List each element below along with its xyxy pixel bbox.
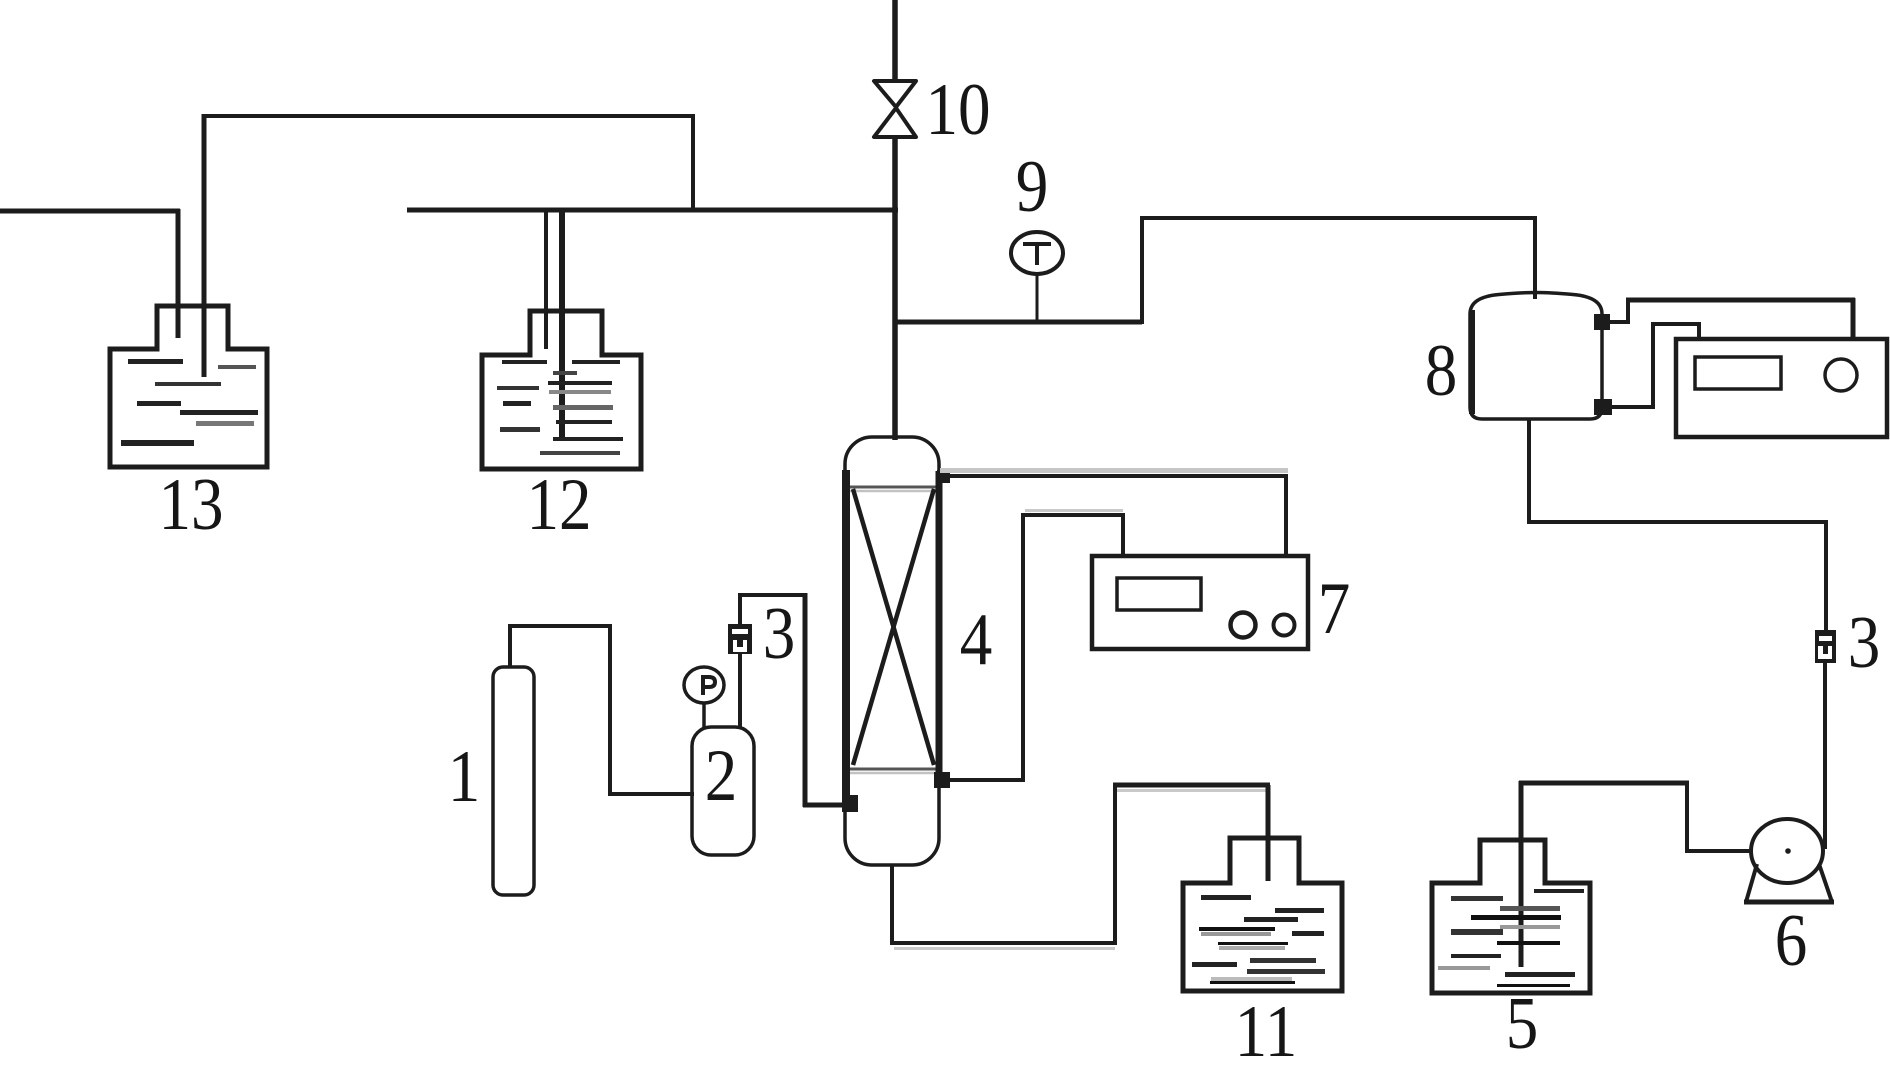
- svg-text:10: 10: [925, 69, 990, 151]
- svg-text:5: 5: [1506, 983, 1539, 1065]
- wire: cylinder 1 to buffer 2: [508, 624, 694, 796]
- valve 3 (left): [728, 624, 752, 654]
- node: vessel 8 lower right connector: [1594, 399, 1612, 415]
- wire: column top to controller 7: [940, 474, 1288, 558]
- svg-text:12: 12: [526, 464, 591, 546]
- wire: top header horizontal: [202, 114, 695, 118]
- node: vessel 8 upper right connector: [1594, 314, 1610, 330]
- svg-text:9: 9: [1016, 146, 1049, 228]
- wire: vessel 8 upper to display unit: [1602, 298, 1855, 340]
- column 4 packing X: [853, 489, 934, 765]
- wire: vessel 8 bottom to valve 3 (right): [1527, 419, 1828, 630]
- controller 7: [1092, 556, 1308, 649]
- column 4 packing top line: [846, 487, 938, 491]
- node: column top-right connector: [937, 470, 950, 483]
- wire: branch from riser to condenser (right): [893, 216, 1537, 324]
- pump 6: [1744, 819, 1834, 902]
- svg-text:13: 13: [158, 464, 223, 546]
- column 4 packing right wall: [936, 471, 943, 782]
- wire: column bottom outlet to tank 11: [890, 783, 1270, 945]
- column 4 packing left wall: [842, 470, 850, 795]
- wire: valve 3 up and over to column bottom: [738, 593, 845, 807]
- wire: valve 3 (right) down to pump 6: [1823, 661, 1827, 849]
- svg-text:8: 8: [1425, 330, 1458, 412]
- wire: column top to controller 7 (gray shadow): [940, 468, 1288, 473]
- node: column bottom-left connector: [842, 795, 858, 812]
- svg-text:6: 6: [1775, 900, 1808, 982]
- wire: tank 5 to pump 6: [1519, 781, 1752, 967]
- column 4 shell: [845, 437, 939, 865]
- wire: top header right drop: [691, 114, 695, 212]
- wire: valve 3 to buffer 2: [738, 654, 742, 728]
- pressure gauge P: [684, 667, 724, 727]
- buffer tank 2: [692, 727, 754, 855]
- valve 10: [874, 81, 916, 137]
- tank 13 short inlet tube: [176, 209, 181, 338]
- tank 13: [110, 306, 267, 467]
- tank 13 dip tube: [202, 114, 207, 377]
- wire: vent riser above valve: [892, 0, 898, 83]
- svg-text:1: 1: [448, 736, 481, 818]
- valve 3 (right): [1815, 630, 1836, 663]
- svg-text:3: 3: [1848, 602, 1881, 684]
- tank 5: [1432, 840, 1590, 993]
- tank 12: [482, 311, 641, 469]
- tank 12 short tube: [544, 210, 548, 349]
- wire: vessel 8 lower to display unit: [1610, 322, 1701, 409]
- svg-text:11: 11: [1235, 991, 1298, 1068]
- wire shadow accents: [894, 509, 1268, 950]
- column 4 packing bottom line: [846, 769, 938, 773]
- thermometer T9: [1011, 232, 1063, 274]
- condenser vessel 8: [1470, 293, 1602, 420]
- gas cylinder 1: [493, 667, 534, 895]
- svg-text:3: 3: [763, 593, 796, 675]
- wire: riser from valve to column top: [892, 135, 898, 440]
- thermometer T9 stem: [1036, 272, 1039, 322]
- svg-text:4: 4: [960, 599, 993, 681]
- display unit (right): [1676, 339, 1887, 437]
- svg-text:2: 2: [705, 735, 738, 817]
- wire: column bottom to controller 7 loop: [942, 513, 1125, 782]
- wire: feed line from left edge: [0, 209, 180, 214]
- tank 12 dip tube: [559, 210, 565, 441]
- wire: middle header to main riser: [407, 208, 898, 213]
- svg-text:7: 7: [1318, 568, 1351, 650]
- tank 11: [1183, 838, 1342, 991]
- node: column bottom-right connector: [934, 772, 950, 788]
